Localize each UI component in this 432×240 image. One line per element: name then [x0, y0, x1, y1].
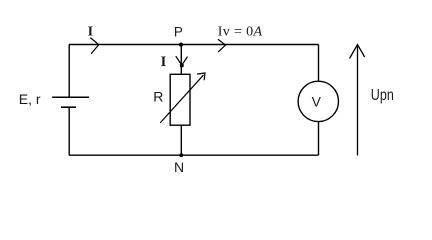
- svg-text:I: I: [88, 25, 93, 40]
- battery E,r long plate: [52, 96, 89, 98]
- wire top (P to left corner and to right corner): [69, 44, 319, 46]
- resistor R box: [170, 74, 190, 125]
- wire right upper (corner to voltmeter): [318, 45, 320, 82]
- wire left lower: [68, 107, 70, 155]
- svg-text:N: N: [174, 159, 184, 175]
- junction blob at arrow tip: [180, 63, 184, 67]
- current arrow I on middle branch: [176, 57, 187, 66]
- wire left upper: [68, 45, 70, 98]
- wire middle branch lower (resistor to N): [180, 125, 182, 155]
- svg-text:E, r: E, r: [19, 91, 41, 107]
- wire bottom: [69, 154, 319, 156]
- node P: [179, 43, 183, 47]
- svg-text:I: I: [161, 54, 167, 70]
- current arrow Iv on top wire right of P: [218, 40, 225, 52]
- svg-text:P: P: [174, 25, 183, 40]
- node N: [179, 153, 183, 157]
- svg-text:Upn: Upn: [371, 87, 394, 104]
- battery E,r short plate: [61, 106, 76, 108]
- svg-text:Iv = 0A: Iv = 0A: [218, 25, 263, 40]
- wire right lower (voltmeter to bottom corner): [318, 122, 320, 156]
- svg-text:V: V: [312, 94, 322, 110]
- svg-text:R: R: [153, 89, 163, 105]
- arrow Upn (vertical with arrowhead up): [350, 45, 365, 156]
- resistor variable arrow diagonal: [161, 73, 206, 123]
- wire middle branch upper (P down to resistor): [180, 45, 182, 75]
- current arrow I on top-left wire: [91, 38, 99, 53]
- voltmeter V circle: [298, 81, 338, 121]
